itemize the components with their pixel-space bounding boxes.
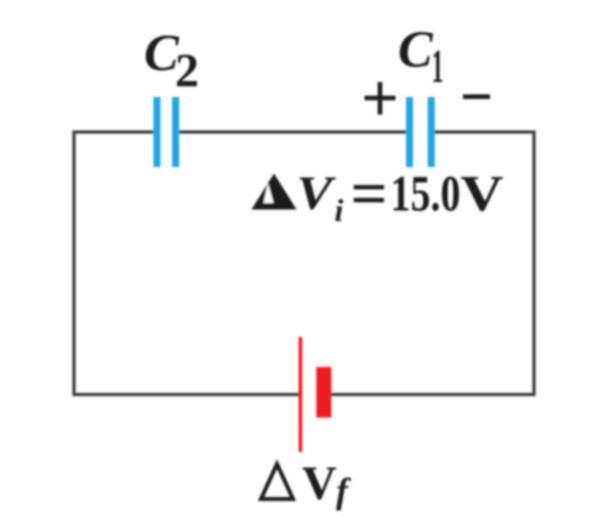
wire top-middle segment bbox=[179, 130, 407, 133]
wire top-left segment bbox=[74, 130, 154, 133]
label Delta Vf bbox=[261, 457, 351, 511]
wire right side bbox=[532, 131, 535, 397]
plus sign at C1 left plate bbox=[365, 82, 396, 115]
capacitor C2 plates bbox=[153, 97, 179, 167]
svg-text:V: V bbox=[461, 166, 504, 222]
svg-text:V: V bbox=[297, 168, 337, 221]
battery: short thick negative plate bbox=[316, 367, 331, 418]
label C2 bbox=[144, 25, 199, 98]
minus sign at C1 right plate bbox=[463, 94, 490, 99]
svg-text:f: f bbox=[336, 471, 351, 511]
battery: long thin positive plate bbox=[299, 337, 303, 452]
svg-text:C: C bbox=[398, 22, 434, 79]
label Delta Vi = 15.0 V bbox=[252, 166, 504, 228]
label C1 bbox=[398, 22, 444, 94]
wire left side bbox=[72, 131, 75, 397]
svg-text:i: i bbox=[335, 192, 344, 228]
svg-text:V: V bbox=[302, 457, 337, 510]
capacitor C1 plates bbox=[406, 97, 435, 167]
wire bottom-right segment bbox=[331, 393, 536, 396]
wire bottom-left segment bbox=[73, 393, 300, 396]
wire top-right segment bbox=[434, 130, 536, 133]
svg-text:2: 2 bbox=[175, 45, 199, 98]
svg-text:15.0: 15.0 bbox=[391, 166, 461, 222]
svg-text:1: 1 bbox=[432, 40, 444, 93]
